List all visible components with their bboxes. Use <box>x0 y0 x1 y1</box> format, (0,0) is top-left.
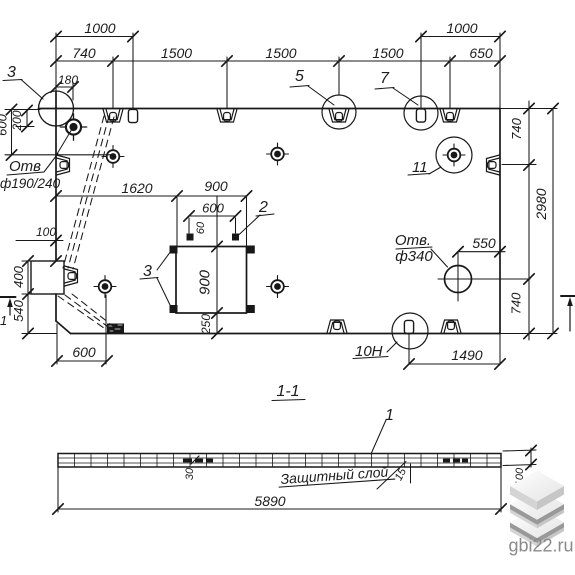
wire bottom edge extension right <box>500 333 557 335</box>
svg-text:740: 740 <box>509 117 524 139</box>
embed E1 top edge <box>128 109 137 122</box>
dimension 1490 <box>409 363 500 365</box>
svg-text:Отв.: Отв. <box>395 232 431 249</box>
wire from 10H embed down <box>408 334 410 365</box>
dimension 250 vertical <box>212 328 222 338</box>
dimension 15 pointer <box>377 462 406 490</box>
corner plate bottom-right <box>247 305 255 313</box>
dimension 740 right top <box>528 101 530 340</box>
svg-text:550: 550 <box>472 235 496 251</box>
hole d340 centerline vertical <box>457 252 459 301</box>
section slab inner line 1 <box>58 457 501 459</box>
strand dashed group 1 <box>63 116 114 269</box>
embed plate 2 left <box>187 234 194 241</box>
callout circle 11 <box>436 137 472 173</box>
wire extension opening left <box>176 196 178 247</box>
svg-text:1-1: 1-1 <box>276 383 299 400</box>
section dark strands left <box>183 459 468 463</box>
embed plate 2 right <box>232 234 239 241</box>
wire extension x227 <box>226 57 228 108</box>
logo plate 3 <box>510 507 564 546</box>
callout circle 10H <box>392 313 428 349</box>
corner plate top-right <box>247 246 255 254</box>
dimension 400 left <box>27 261 29 334</box>
svg-text:600: 600 <box>0 113 10 135</box>
svg-text:1620: 1620 <box>121 180 152 196</box>
wire extension x133 <box>132 33 134 109</box>
callout circle 5 <box>322 95 356 129</box>
svg-text:740: 740 <box>72 45 96 61</box>
section slab inner line 2 <box>58 462 501 464</box>
side loop right edge <box>487 155 500 175</box>
svg-text:100: 100 <box>36 225 56 239</box>
strand anchor A5 <box>267 276 289 298</box>
note protective layer <box>278 463 395 487</box>
dimension 180 <box>56 86 73 88</box>
section joints <box>75 454 488 468</box>
svg-text:180: 180 <box>58 73 78 87</box>
embed E2 top edge in circle 7 <box>416 109 425 122</box>
embed at bottom edge in circle 10H <box>404 320 413 333</box>
strand dashed group 2 <box>58 294 118 330</box>
wire right edge extension down <box>499 334 501 365</box>
slab top edge <box>39 108 501 110</box>
svg-text:30: 30 <box>184 467 196 480</box>
strand anchor A1 <box>60 114 86 140</box>
svg-text:15: 15 <box>393 466 410 483</box>
svg-text:1500: 1500 <box>372 45 403 61</box>
dimension 900 vertical <box>216 196 218 334</box>
wire top edge extension right <box>500 108 557 110</box>
strand bundle block <box>107 324 124 334</box>
side loop at notch <box>65 266 78 286</box>
hole d340 circle <box>445 266 472 293</box>
dimension row 740 1500 1500 1500 650 <box>56 60 500 62</box>
wire right edge extension up <box>499 33 501 109</box>
svg-text:3: 3 <box>7 64 16 81</box>
dimension 2980 <box>552 109 554 334</box>
loop L2 top edge <box>217 109 237 122</box>
hole 190x240 circle <box>39 91 74 126</box>
side loop left edge <box>57 155 70 175</box>
wire extension y155 <box>5 154 115 156</box>
slab right edge <box>499 109 501 334</box>
logo plate 2 <box>510 489 564 529</box>
svg-text:5890: 5890 <box>254 493 285 509</box>
svg-text:740: 740 <box>509 292 524 314</box>
svg-text:900: 900 <box>197 269 214 295</box>
svg-text:1: 1 <box>0 313 7 328</box>
dimension 540 left <box>23 328 33 338</box>
svg-text:1500: 1500 <box>161 45 192 61</box>
edge notch 400x540 <box>31 261 64 294</box>
callout circle 7 <box>404 96 438 130</box>
svg-text:5: 5 <box>295 68 304 85</box>
dimension 100 section <box>530 448 532 467</box>
svg-text:2: 2 <box>258 199 268 216</box>
svg-text:1000: 1000 <box>446 20 477 36</box>
dimension 740 right bottom <box>524 274 534 284</box>
opening 900x900 <box>176 247 247 314</box>
svg-text:600: 600 <box>72 344 96 360</box>
svg-text:250: 250 <box>199 314 213 335</box>
svg-text:200: 200 <box>10 110 24 131</box>
dimension 1620 900 row <box>56 195 247 197</box>
svg-text:1490: 1490 <box>451 347 482 363</box>
svg-text:1000: 1000 <box>84 20 115 36</box>
section arrow left <box>0 296 16 298</box>
dimension 1000 top-left <box>56 36 133 38</box>
wire extension x339 <box>338 57 340 95</box>
section arrow right <box>561 295 575 297</box>
loop bottom edge B1 <box>327 320 347 333</box>
svg-text:3: 3 <box>143 263 152 280</box>
svg-text:540: 540 <box>11 299 26 321</box>
strand anchor A3 <box>267 143 289 165</box>
corner plate top-left <box>170 246 178 254</box>
loop L1 top edge <box>103 109 123 122</box>
wire extension x113 <box>112 57 114 108</box>
section slab outline <box>58 454 501 468</box>
svg-text:900: 900 <box>204 178 228 194</box>
dimension 200 left vertical <box>26 111 28 127</box>
dimension 600 left vertical <box>11 110 13 156</box>
wire leader inside hole <box>57 129 72 154</box>
dimension 550 <box>458 251 505 253</box>
dimension 600 embeds <box>189 215 236 217</box>
svg-text:gbi22.ru: gbi22.ru <box>508 536 573 556</box>
wire left edge extension up <box>55 33 57 91</box>
strand anchor A2 <box>102 146 124 168</box>
wire extension x450 <box>449 57 451 108</box>
svg-text:ф190/240: ф190/240 <box>0 176 61 191</box>
dimension 5890 <box>58 508 501 510</box>
slab corner chamfer <box>56 321 71 334</box>
svg-text:60: 60 <box>195 221 207 234</box>
wire bottom edge extension left <box>22 333 57 335</box>
loop L4 top edge <box>440 109 460 122</box>
svg-text:ф340: ф340 <box>395 248 433 265</box>
wire extension opening right <box>246 196 248 247</box>
svg-text:1: 1 <box>385 407 394 424</box>
strand anchor A6 in circle 11 <box>443 144 465 166</box>
wire top edge extension left <box>5 109 40 111</box>
corner plate bottom-left <box>170 305 178 313</box>
svg-text:650: 650 <box>469 45 493 61</box>
svg-text:400: 400 <box>11 265 26 287</box>
wire extension x421 <box>420 33 422 108</box>
strand anchor A4 <box>94 276 116 298</box>
loop L3 top edge <box>329 109 349 122</box>
hole d340 centerline horizontal <box>438 278 530 280</box>
dimension 30 <box>191 456 199 464</box>
svg-text:2980: 2980 <box>533 188 549 220</box>
svg-text:7: 7 <box>380 70 390 87</box>
svg-text:1500: 1500 <box>265 45 296 61</box>
slab bottom edge <box>71 333 501 335</box>
dimension 600 bottom-left <box>57 360 107 362</box>
svg-text:600: 600 <box>202 201 224 216</box>
wire extension y126.5 <box>16 126 34 128</box>
logo plate 1 <box>510 471 564 511</box>
dimension 1000 top-right <box>421 36 500 38</box>
loop bottom edge B2 <box>441 320 461 333</box>
slab left edge <box>55 91 57 261</box>
